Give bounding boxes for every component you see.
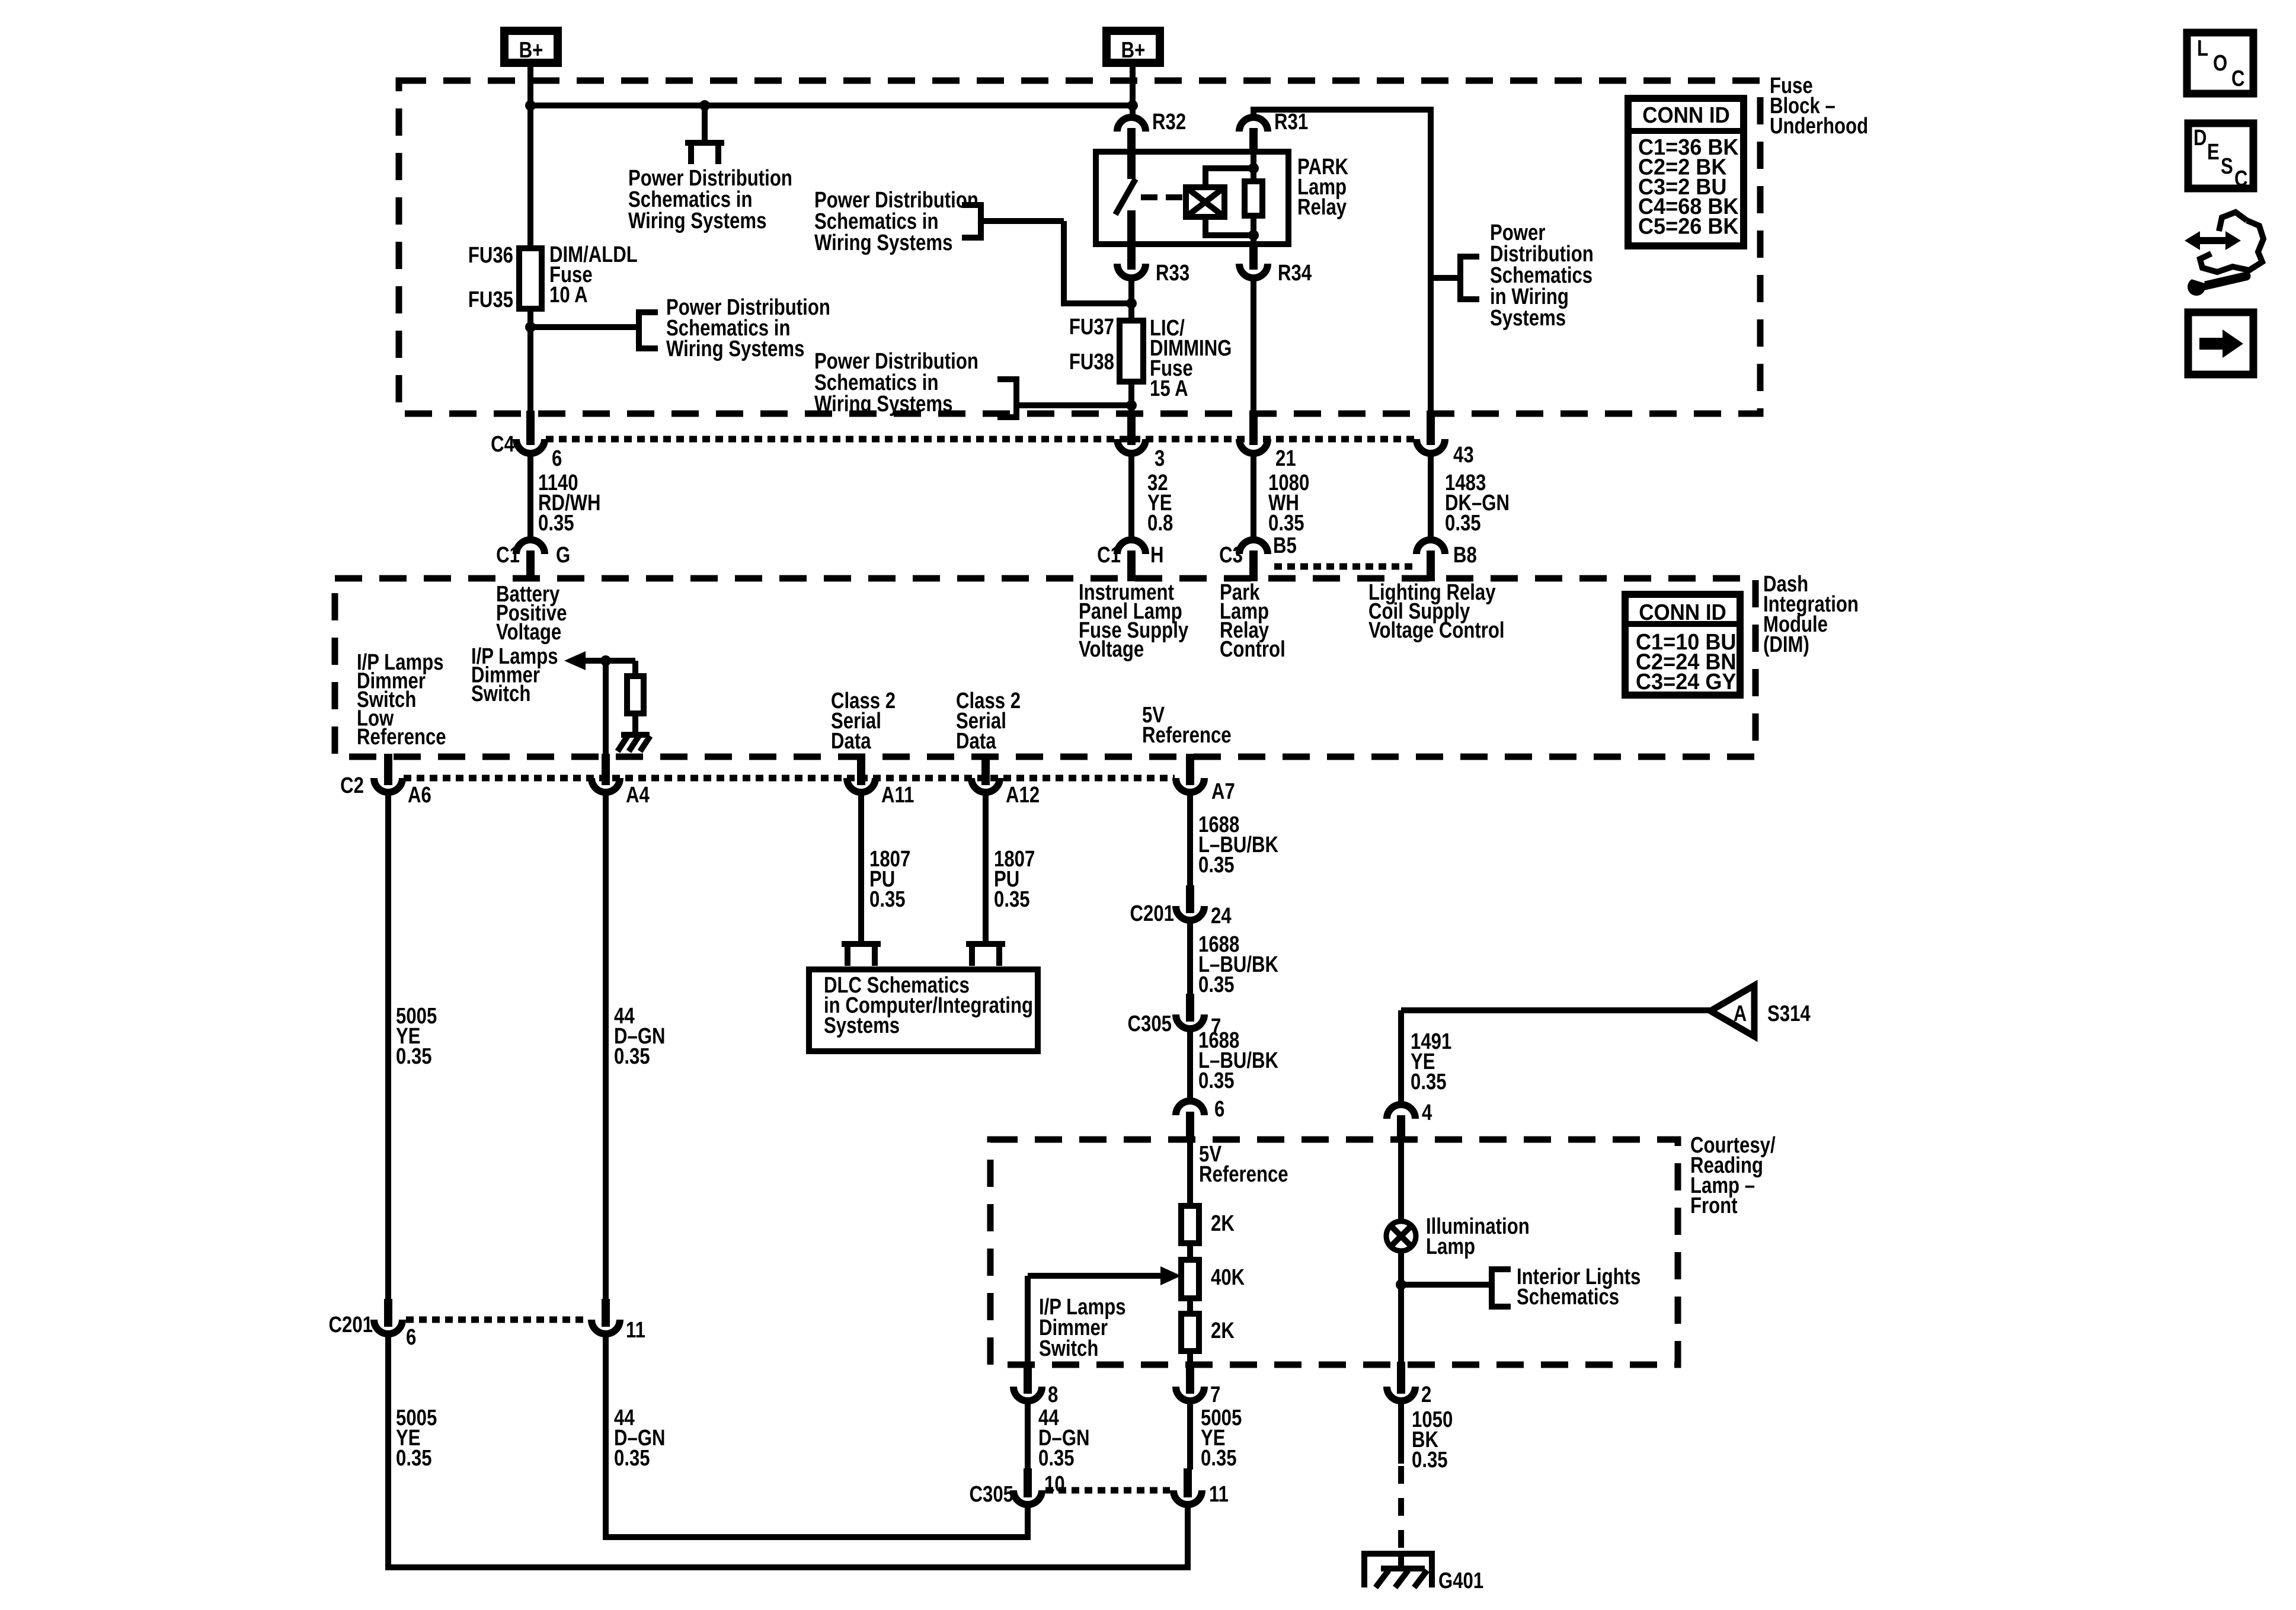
- svg-text:CONN ID: CONN ID: [1639, 600, 1726, 625]
- harness dotted line row C305: [1045, 1487, 1170, 1494]
- bracket power distribution 5: [1460, 257, 1479, 299]
- svg-text:A7: A7: [1211, 779, 1235, 804]
- illumination lamp: [1386, 1221, 1416, 1251]
- connector pin 8: [1024, 1362, 1032, 1394]
- wire B+2 to relay switch R32: [1130, 105, 1136, 121]
- remove/install icon: [2185, 231, 2241, 250]
- svg-text:6: 6: [552, 446, 562, 471]
- svg-text:Systems: Systems: [1490, 306, 1566, 331]
- svg-text:Lamp: Lamp: [1426, 1234, 1475, 1259]
- svg-text:4: 4: [1422, 1100, 1432, 1125]
- svg-text:0.35: 0.35: [614, 1446, 650, 1471]
- relay coil loop bottom: [1205, 217, 1253, 235]
- relay coil loop top: [1205, 168, 1253, 187]
- relay switch contact bottom: [1127, 210, 1136, 245]
- svg-text:(DIM): (DIM): [1763, 632, 1809, 657]
- svg-text:15 A: 15 A: [1150, 376, 1188, 401]
- svg-text:B5: B5: [1273, 533, 1297, 558]
- wire junction to A4: [603, 661, 609, 754]
- fuse block underhood dashed box: [399, 81, 1760, 414]
- CONN ID table fuse block: [1628, 98, 1744, 246]
- fork reference power distribution: [702, 105, 708, 143]
- connector R33: [1127, 243, 1136, 270]
- node junction fork tap: [699, 100, 710, 111]
- connector R31: [1239, 117, 1268, 132]
- connector pin A12: [981, 754, 990, 785]
- connector 4 courtesy lamp: [1387, 1105, 1415, 1119]
- connector 6 courtesy lamp: [1176, 1101, 1204, 1115]
- connector pin A11: [857, 754, 865, 785]
- svg-text:B+: B+: [1121, 38, 1146, 63]
- harness dotted line row C2: [404, 775, 1175, 782]
- svg-text:0.35: 0.35: [994, 887, 1030, 912]
- wire lamp to pin 2: [1398, 1250, 1404, 1363]
- wire 44 D-GN lower: [606, 1335, 1028, 1537]
- ground DIM internal: [621, 732, 650, 738]
- svg-text:Voltage: Voltage: [496, 620, 561, 645]
- wire A6 5005 YE upper: [385, 793, 391, 1301]
- svg-text:Systems: Systems: [824, 1013, 900, 1038]
- svg-text:C201: C201: [1130, 901, 1174, 926]
- connector pin 21: [1249, 411, 1258, 445]
- svg-text:C1: C1: [496, 543, 520, 568]
- svg-text:Front: Front: [1690, 1193, 1738, 1218]
- bracket interior lights: [1492, 1269, 1511, 1307]
- relay switch contact top: [1127, 153, 1136, 179]
- wire 5V into divider: [1187, 1142, 1193, 1206]
- svg-text:0.35: 0.35: [1411, 1070, 1447, 1094]
- connector C2 pin A6: [384, 754, 392, 785]
- svg-text:Schematics: Schematics: [1517, 1285, 1619, 1310]
- wire B+2 down: [1130, 67, 1136, 105]
- svg-text:C305: C305: [1128, 1012, 1172, 1036]
- connector pin 7: [1186, 1362, 1194, 1394]
- svg-text:B+: B+: [519, 38, 543, 63]
- svg-text:C3=24 GY: C3=24 GY: [1636, 668, 1737, 694]
- wire 1483 DK-GN: [1428, 453, 1434, 542]
- svg-text:11: 11: [1209, 1482, 1229, 1507]
- relay coil box: [1186, 187, 1224, 217]
- fuse FU37/FU38 LIC/DIMMING 15A: [1120, 321, 1143, 382]
- relay coil parallel resistor: [1251, 152, 1256, 181]
- connector pin B8: [1416, 540, 1445, 554]
- svg-text:R33: R33: [1156, 261, 1189, 286]
- svg-text:24: 24: [1211, 904, 1232, 929]
- svg-text:3: 3: [1155, 446, 1165, 471]
- svg-text:0.35: 0.35: [869, 887, 906, 912]
- wire 1688 L-BU/BK 3: [1187, 1030, 1193, 1103]
- relay mechanical link dashes: [1141, 194, 1184, 200]
- svg-text:A6: A6: [408, 783, 431, 808]
- wire 5005 YE pin7: [1187, 1401, 1193, 1470]
- wire R34 to connector 21: [1251, 278, 1256, 412]
- svg-text:Data: Data: [831, 729, 871, 754]
- svg-text:FU38: FU38: [1069, 350, 1114, 375]
- wire bus to fuse FU36: [527, 105, 533, 248]
- svg-text:40K: 40K: [1211, 1265, 1245, 1290]
- dash integration module dashed box: [335, 578, 1755, 757]
- connector C1 pin G: [516, 540, 545, 554]
- node junction below FU35: [525, 322, 536, 332]
- svg-text:E: E: [2207, 140, 2220, 165]
- harness dotted line row C201: [406, 1317, 588, 1323]
- connector C3 pin B5: [1239, 540, 1268, 554]
- svg-text:C2: C2: [340, 773, 364, 798]
- resistor 2K top: [1181, 1206, 1199, 1243]
- wiper arrow left: [564, 651, 586, 670]
- svg-text:C3: C3: [1219, 543, 1243, 568]
- svg-text:FU36: FU36: [468, 243, 513, 268]
- fuse FU36/FU35 DIM/ALDL 10A: [519, 248, 542, 309]
- svg-text:8: 8: [1048, 1382, 1058, 1407]
- svg-text:R34: R34: [1278, 261, 1312, 286]
- svg-text:21: 21: [1275, 446, 1296, 471]
- wire 32 YE: [1128, 453, 1134, 542]
- node junction interior lights: [1396, 1279, 1406, 1290]
- svg-text:Reference: Reference: [1142, 723, 1232, 748]
- svg-text:Wiring Systems: Wiring Systems: [814, 392, 952, 417]
- wire 44 D-GN pin8: [1025, 1401, 1031, 1470]
- wire connector 4 to lamp: [1398, 1142, 1404, 1222]
- connector C305 pin 10: [1024, 1468, 1032, 1497]
- connector pin 2: [1397, 1362, 1405, 1394]
- svg-text:0.8: 0.8: [1147, 511, 1173, 536]
- svg-text:Reference: Reference: [357, 725, 446, 750]
- relay box PARK Lamp Relay: [1096, 152, 1288, 244]
- svg-text:0.35: 0.35: [614, 1044, 650, 1069]
- wire S314 to lamp connector 4: [1401, 1007, 1710, 1013]
- svg-text:A: A: [1734, 1001, 1747, 1026]
- svg-text:Wiring Systems: Wiring Systems: [666, 337, 804, 361]
- svg-text:Control: Control: [1220, 637, 1285, 662]
- wire wiper to pin 8: [1025, 1276, 1031, 1363]
- node coil top: [1248, 163, 1259, 174]
- wire 5005 YE lower: [388, 1335, 1188, 1567]
- svg-text:C: C: [2231, 66, 2245, 91]
- svg-text:A11: A11: [881, 783, 914, 808]
- courtesy reading lamp dashed box: [990, 1140, 1678, 1365]
- wire 1688 L-BU/BK 2: [1187, 921, 1193, 994]
- go-to arrow icon box: [2188, 312, 2253, 375]
- wire arrow to junction: [586, 658, 635, 664]
- svg-text:0.35: 0.35: [396, 1446, 432, 1471]
- svg-text:Reference: Reference: [1199, 1162, 1288, 1187]
- svg-text:Wiring Systems: Wiring Systems: [628, 209, 766, 233]
- wire A7 1688 L-BU/BK 1: [1187, 793, 1193, 885]
- svg-text:G401: G401: [1438, 1569, 1483, 1593]
- svg-text:Relay: Relay: [1297, 195, 1347, 220]
- harness dotted line row C4: [546, 436, 1415, 443]
- svg-text:0.35: 0.35: [1201, 1446, 1237, 1471]
- svg-text:R31: R31: [1274, 110, 1308, 135]
- bus wire B+1 to B+2: [530, 103, 1133, 108]
- wire fuse to C4: [527, 309, 533, 412]
- connector pin A7: [1186, 754, 1194, 785]
- battery feed B+ terminal 1: [504, 31, 558, 63]
- svg-text:Voltage: Voltage: [1079, 637, 1144, 662]
- connector R32: [1117, 117, 1146, 132]
- node junction dimmer feedback: [600, 655, 611, 666]
- connector R34: [1249, 243, 1258, 270]
- svg-text:2: 2: [1421, 1382, 1431, 1407]
- node coil bottom: [1248, 230, 1259, 241]
- resistor 40K: [1181, 1260, 1199, 1298]
- svg-text:FU37: FU37: [1069, 315, 1114, 340]
- wire R33 to FU37: [1128, 278, 1134, 321]
- svg-text:C201: C201: [329, 1313, 373, 1337]
- wire A11 1807 PU: [858, 793, 864, 944]
- svg-text:0.35: 0.35: [1198, 853, 1235, 878]
- wire A4 44 D-GN upper: [603, 793, 609, 1301]
- connector C1 pin H: [1117, 540, 1146, 554]
- svg-text:C305: C305: [970, 1482, 1013, 1507]
- connector C201 pin 24: [1186, 885, 1194, 913]
- wire resistor to ground: [632, 713, 638, 735]
- CONN ID table DIM: [1625, 594, 1740, 695]
- harness dotted line B5 to B8: [1274, 564, 1413, 570]
- wire 1050 BK pin2: [1398, 1401, 1404, 1464]
- wire 1140 RD/WH: [527, 453, 533, 542]
- wire 1080 WH: [1251, 453, 1256, 542]
- svg-text:0.35: 0.35: [1268, 511, 1304, 536]
- svg-text:Wiring Systems: Wiring Systems: [814, 231, 952, 255]
- svg-text:0.35: 0.35: [1445, 511, 1481, 536]
- svg-text:C5=26 BK: C5=26 BK: [1638, 213, 1739, 239]
- bracket power distribution 2: [639, 312, 658, 348]
- svg-text:A4: A4: [626, 783, 650, 808]
- svg-text:0.35: 0.35: [1198, 972, 1235, 997]
- svg-text:6: 6: [406, 1325, 416, 1350]
- svg-text:11: 11: [626, 1318, 645, 1343]
- connector C4 pin 6: [526, 411, 535, 445]
- svg-text:Voltage Control: Voltage Control: [1368, 618, 1505, 643]
- wire coil to R34: [1251, 235, 1256, 245]
- svg-text:2K: 2K: [1211, 1318, 1235, 1343]
- svg-text:43: 43: [1453, 443, 1474, 468]
- svg-text:R32: R32: [1152, 110, 1186, 135]
- svg-text:2K: 2K: [1211, 1211, 1235, 1236]
- svg-text:S314: S314: [1767, 1001, 1811, 1026]
- svg-text:7: 7: [1210, 1382, 1220, 1407]
- connector C201 pin 6: [384, 1299, 392, 1327]
- svg-text:C4: C4: [491, 432, 514, 457]
- connector C305 pin 7: [1186, 994, 1194, 1022]
- splice S314 triangle: [1710, 985, 1754, 1036]
- svg-text:Underhood: Underhood: [1770, 114, 1868, 139]
- wire R31 feed from DIM B8 riser: [1253, 110, 1431, 412]
- resistor DIM internal: [632, 661, 638, 676]
- svg-text:H: H: [1150, 543, 1164, 568]
- wire B+1 to bus: [527, 67, 533, 105]
- connector pin A4: [602, 754, 610, 785]
- connector pin 43: [1427, 411, 1435, 445]
- svg-text:L: L: [2197, 36, 2208, 61]
- wire A12 1807 PU: [983, 793, 989, 944]
- svg-text:O: O: [2213, 51, 2227, 76]
- wiper arrow 40K: [1028, 1273, 1165, 1279]
- fork A12 into DLC: [969, 944, 1002, 947]
- svg-text:0.35: 0.35: [396, 1044, 432, 1069]
- connector pin 3: [1127, 411, 1136, 445]
- bracket power distribution 3: [962, 205, 981, 238]
- node junction B+2: [1127, 100, 1138, 111]
- fork A11 into DLC: [845, 944, 878, 947]
- battery feed B+ terminal 2: [1107, 31, 1160, 63]
- relay switch blade: [1115, 179, 1136, 215]
- wire FU38 to connector 3: [1128, 382, 1134, 412]
- node junction below FU38: [1126, 400, 1137, 411]
- svg-text:G: G: [556, 543, 570, 568]
- resistor 2K bottom: [1181, 1314, 1199, 1351]
- svg-text:0.35: 0.35: [538, 511, 574, 536]
- connector C201 pin 11: [602, 1299, 610, 1327]
- connector C305 pin 11: [1184, 1468, 1192, 1497]
- ground G401: [1364, 1554, 1432, 1587]
- bracket power distribution 4: [997, 379, 1016, 417]
- svg-text:CONN ID: CONN ID: [1642, 103, 1730, 128]
- svg-text:Switch: Switch: [471, 681, 530, 706]
- svg-text:0.35: 0.35: [1038, 1446, 1075, 1471]
- DESC icon box: [2188, 123, 2253, 188]
- svg-text:0.35: 0.35: [1198, 1068, 1235, 1093]
- svg-text:C1: C1: [1097, 543, 1121, 568]
- svg-text:10 A: 10 A: [549, 283, 588, 308]
- svg-text:6: 6: [1214, 1097, 1224, 1122]
- svg-text:C: C: [2234, 167, 2248, 191]
- node junction B+1: [525, 100, 536, 111]
- svg-text:S: S: [2221, 154, 2233, 179]
- wire 1050 BK dashed to ground: [1398, 1466, 1404, 1554]
- svg-text:0.35: 0.35: [1412, 1448, 1448, 1473]
- svg-text:Data: Data: [956, 729, 996, 754]
- LOC icon box: [2187, 33, 2253, 94]
- svg-text:Switch: Switch: [1039, 1336, 1098, 1361]
- DLC schematics box: [809, 969, 1038, 1051]
- svg-text:B8: B8: [1453, 543, 1477, 568]
- svg-text:D: D: [2193, 126, 2207, 151]
- svg-text:FU35: FU35: [468, 287, 513, 312]
- node junction above FU37: [1126, 298, 1137, 309]
- svg-text:A12: A12: [1006, 783, 1040, 808]
